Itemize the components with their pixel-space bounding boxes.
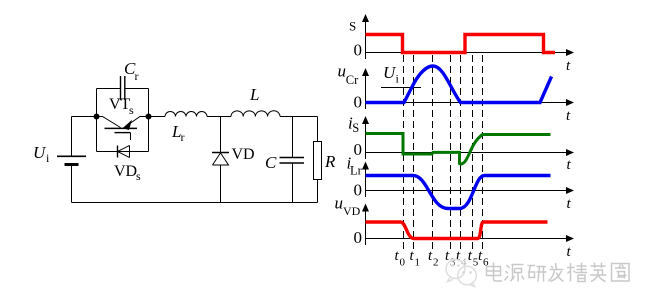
axes	[362, 14, 574, 245]
svg-text:1: 1	[415, 257, 421, 269]
svg-text:u: u	[335, 193, 344, 212]
Ui level marker in uCr plot	[381, 87, 421, 89]
svg-text:u: u	[338, 62, 347, 81]
wire to Lr	[149, 116, 166, 118]
svg-text:i: i	[46, 151, 50, 165]
svg-text:s: s	[136, 169, 141, 183]
transistor VTs	[97, 117, 149, 141]
watermark text 电源研发精英圈 (simplified strokes)	[487, 263, 630, 282]
svg-text:S: S	[352, 121, 359, 135]
svg-text:S: S	[349, 19, 356, 34]
char 源	[505, 265, 525, 282]
wire L to right	[280, 116, 318, 118]
svg-text:VT: VT	[109, 96, 131, 113]
axis uCr	[365, 74, 367, 109]
inductor L	[231, 111, 280, 117]
svg-text:t: t	[567, 157, 572, 173]
capacitor C branch	[280, 117, 305, 203]
waveform S (red)	[366, 35, 556, 53]
svg-text:VD: VD	[114, 163, 137, 180]
wire: battery top to left node	[72, 116, 97, 118]
voltage source Ui (battery)	[57, 117, 86, 203]
svg-text:0: 0	[400, 257, 406, 269]
switch cell box right vertical	[148, 89, 150, 152]
waveform uVD (red)	[366, 222, 548, 239]
char 精	[567, 263, 587, 282]
svg-text:i: i	[396, 72, 400, 86]
svg-text:0: 0	[354, 41, 363, 60]
char 发	[549, 263, 564, 282]
svg-text:t: t	[566, 108, 571, 124]
diode VDs (antiparallel)	[118, 146, 130, 158]
t0..t6 labels	[395, 248, 484, 264]
inductor Lr	[165, 112, 207, 117]
watermark logo (two chat bubbles)	[446, 260, 476, 287]
svg-text:U: U	[33, 143, 47, 162]
waveform uCr (blue)	[366, 66, 552, 103]
axis iS	[365, 122, 367, 159]
svg-text:t: t	[567, 196, 572, 212]
circuit labels	[33, 59, 336, 183]
dashed time lines t0..t6	[404, 55, 483, 252]
svg-text:Cr: Cr	[346, 73, 359, 87]
switch cell box left vertical	[96, 89, 98, 152]
svg-text:VD: VD	[343, 204, 361, 218]
node B (right junction dot)	[146, 114, 152, 120]
char 圈	[612, 264, 630, 282]
wire Lr to L with node	[207, 116, 231, 118]
svg-text:t: t	[566, 58, 571, 74]
svg-text:t: t	[567, 244, 572, 260]
waveform labels	[335, 19, 572, 269]
capacitor Cr	[97, 76, 149, 100]
svg-text:3: 3	[450, 257, 456, 269]
wire: box bottom with VDs	[97, 151, 149, 153]
wire: bottom rail	[72, 202, 318, 204]
svg-text:0: 0	[354, 181, 363, 200]
svg-text:r: r	[135, 69, 139, 83]
svg-text:s: s	[129, 103, 134, 117]
char 英	[590, 263, 607, 282]
waveform iLr (blue)	[366, 176, 551, 209]
svg-text:L: L	[249, 85, 259, 104]
resistor R branch	[314, 117, 322, 203]
node A (left junction dot)	[94, 114, 100, 120]
axis uVD	[365, 210, 367, 246]
char 研	[528, 266, 547, 282]
axis S	[365, 20, 367, 59]
char 电	[487, 263, 503, 282]
svg-text:2: 2	[433, 257, 439, 269]
svg-text:r: r	[181, 130, 185, 144]
axis iLr	[365, 168, 367, 198]
diode VD branch	[212, 117, 229, 203]
svg-text:5: 5	[473, 257, 479, 269]
svg-text:0: 0	[354, 140, 363, 159]
svg-text:C: C	[265, 153, 277, 172]
svg-text:VD: VD	[232, 146, 255, 163]
svg-text:0: 0	[354, 92, 363, 111]
waveform iS (green)	[366, 134, 551, 165]
svg-text:R: R	[324, 152, 336, 171]
svg-text:0: 0	[354, 228, 363, 247]
svg-text:Lr: Lr	[350, 163, 363, 177]
